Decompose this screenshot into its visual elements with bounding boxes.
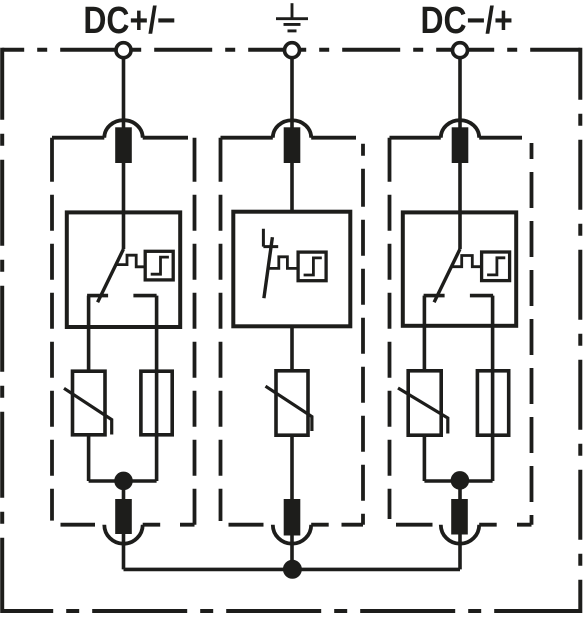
module 3 outline (dashed, with plug bumps)	[390, 120, 532, 544]
step glyph U2	[304, 258, 322, 275]
terminal earth	[285, 43, 300, 58]
signalling contact square U3	[482, 252, 510, 281]
disconnector box U2	[233, 212, 350, 327]
signal step wave U1	[116, 255, 145, 267]
switch blade U3	[434, 249, 460, 302]
step glyph U1	[151, 257, 169, 274]
switch blade U1	[98, 249, 124, 302]
wire branch2 varistor to bus	[290, 435, 294, 570]
wire branch2 box to varistor	[290, 326, 294, 371]
signalling contact square U1	[145, 251, 173, 280]
varistor MOV1	[73, 371, 106, 435]
plug contact top 2	[284, 127, 301, 163]
plug contact top 1	[115, 127, 132, 163]
plug contact bottom 2	[284, 499, 301, 536]
earth bus wire	[124, 568, 461, 572]
module 2 outline (dashed, with plug bumps)	[221, 120, 364, 543]
wire junction bar 3	[424, 479, 492, 483]
enclosure border right (dash-dot)	[578, 48, 582, 613]
varistor MOV3 diagonal	[398, 388, 448, 434]
signalling contact square U2	[298, 252, 326, 281]
wire branch1 terminal to disconnector	[122, 56, 126, 249]
enclosure border top (dash-dot)	[2, 48, 580, 52]
disconnector box U3	[403, 212, 516, 325]
wire fuse leg 1	[155, 296, 159, 481]
varistor MOV2	[276, 371, 308, 435]
enclosure border bottom (dash-dot)	[2, 609, 580, 613]
junction node 1	[114, 472, 133, 491]
module 1 outline (dashed, with plug bumps)	[52, 120, 195, 544]
wire branch3 terminal to disconnector	[458, 56, 462, 249]
step glyph U3	[487, 258, 505, 275]
wire junction bar 1	[89, 479, 157, 483]
signal step wave U3	[452, 256, 481, 267]
earth bus node	[283, 560, 302, 579]
enclosure border left (dash-dot)	[0, 48, 4, 613]
terminal DC+/-	[116, 43, 131, 58]
disconnector box U1	[67, 212, 180, 327]
earth symbol	[276, 3, 308, 31]
svg-text:DC+/−: DC+/−	[83, 0, 175, 42]
varistor MOV2 diagonal	[266, 386, 312, 431]
fuse F3	[477, 371, 508, 435]
switch contact bracket U3	[424, 294, 494, 298]
plug contact bottom 1	[115, 499, 132, 534]
plug contact bottom 3	[451, 499, 468, 535]
wire branch2 terminal to box	[290, 56, 294, 212]
junction node 3	[451, 471, 470, 490]
switch blade U2	[264, 237, 273, 298]
varistor MOV1 diagonal	[64, 388, 112, 434]
signal step wave U2	[268, 257, 298, 269]
switch contact bracket U1	[87, 294, 157, 298]
svg-text:DC−/+: DC−/+	[420, 0, 512, 42]
plug contact top 3	[452, 127, 469, 163]
wire branch1 junction to bus	[122, 481, 126, 569]
wire varistor leg 1	[87, 296, 91, 481]
fuse F1	[141, 371, 172, 435]
wire fuse leg 3	[491, 296, 495, 481]
terminal DC-/+	[453, 43, 468, 58]
varistor MOV3	[408, 371, 441, 435]
wire varistor leg 3	[423, 296, 427, 481]
disconnector symbol U2 (vertical + horizontal)	[263, 229, 278, 247]
wire branch3 junction to bus	[458, 481, 462, 569]
